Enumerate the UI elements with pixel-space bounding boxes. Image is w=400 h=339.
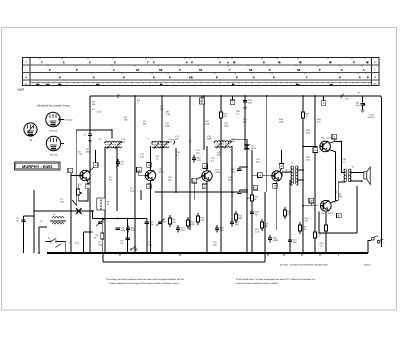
fuse FS1 on supply rail xyxy=(201,96,203,98)
capacitor C19 0.04 xyxy=(215,228,219,230)
terminal 22 xyxy=(273,184,278,189)
svg-text:0.005: 0.005 xyxy=(273,239,279,242)
svg-text:OC72: OC72 xyxy=(327,136,332,139)
svg-text:PAGE 1: PAGE 1 xyxy=(364,264,372,267)
svg-text:TS5: TS5 xyxy=(321,212,324,215)
AGC feed wire xyxy=(75,130,77,206)
terminal 16 xyxy=(147,184,152,189)
terminal 10 xyxy=(137,167,142,172)
svg-text:c: c xyxy=(55,137,56,139)
terminal 21 xyxy=(253,185,258,190)
svg-text:C: C xyxy=(25,61,27,64)
wave change switch S1 xyxy=(50,241,51,242)
svg-text:resistor has been marked the v: resistor has been marked the value is om… xyxy=(236,282,278,285)
decoupling capacitor C7 xyxy=(88,134,92,136)
terminal 8 xyxy=(332,134,337,139)
volume control VR1 xyxy=(251,195,254,201)
capacitor C35 0.005 xyxy=(268,238,272,240)
transistor TS1 OC44 xyxy=(80,170,90,180)
bias resistor R2b xyxy=(77,189,80,195)
svg-text:SUPPLY: SUPPLY xyxy=(368,116,376,119)
svg-text:b: b xyxy=(27,122,28,125)
terminal 25 xyxy=(313,148,318,153)
svg-text:OC45: OC45 xyxy=(215,171,220,174)
detector diode D1 OA70 xyxy=(246,142,248,154)
svg-text:b: b xyxy=(50,136,51,139)
trimmer capacitor C1 xyxy=(21,220,25,222)
svg-text:OC72: OC72 xyxy=(328,212,333,215)
terminal 13 xyxy=(147,163,152,168)
aerial circuit vertical xyxy=(24,190,35,253)
resistor R11 8.2k xyxy=(187,220,190,226)
loudspeaker LS xyxy=(364,172,367,179)
T1 base/collector/emitter leads xyxy=(71,150,96,253)
chassis ground rail xyxy=(47,252,368,254)
svg-text:2.2k: 2.2k xyxy=(78,153,82,156)
capacitor C11 0.01 xyxy=(126,228,130,230)
switch feed wire xyxy=(84,232,93,253)
capacitor C30 on rail xyxy=(244,96,246,100)
terminal 28 xyxy=(309,198,314,203)
coupling capacitor C40 xyxy=(250,212,254,214)
terminal 9 on rail xyxy=(321,101,326,106)
oscillator transformer L4 L5 xyxy=(105,141,114,142)
IF transformer IFT1 xyxy=(152,141,161,142)
resistor R14 10k xyxy=(220,112,223,118)
capacitor C41 50µ xyxy=(288,240,292,242)
svg-text:1k: 1k xyxy=(156,158,158,161)
transistor pinout TS1 xyxy=(24,123,37,136)
svg-text:C: C xyxy=(374,61,376,64)
transistor pinout TS5 TS6 xyxy=(46,136,60,150)
detector load caps xyxy=(239,167,247,192)
svg-text:c: c xyxy=(32,123,33,125)
svg-text:.005: .005 xyxy=(231,171,235,174)
ferrite rod aerial L1 xyxy=(50,217,66,224)
svg-text:OC45: OC45 xyxy=(159,171,164,174)
resistor R24 47 xyxy=(314,232,317,238)
svg-text:TS2 TS4: TS2 TS4 xyxy=(49,130,58,133)
svg-text:OA70: OA70 xyxy=(251,147,257,150)
X mark gang coupling xyxy=(76,208,82,214)
stage connection wires xyxy=(151,146,282,253)
capacitor C16 0.01 xyxy=(192,158,196,160)
svg-text:1 Q: 1 Q xyxy=(189,76,193,79)
resistor R12 2.7k xyxy=(197,216,200,222)
terminal 20 xyxy=(279,164,284,169)
transistor TS6 OC72 xyxy=(320,141,331,152)
svg-text:B493: B493 xyxy=(18,88,25,92)
svg-text:c: c xyxy=(55,113,56,115)
output stage wires xyxy=(303,139,346,206)
svg-text:4k: 4k xyxy=(117,96,119,99)
resistor R22 1k xyxy=(302,112,305,118)
transistor TS4 OC71 xyxy=(272,171,282,181)
resistor R18 10k xyxy=(261,222,264,228)
battery press studs xyxy=(371,237,374,240)
output transformer T2 xyxy=(347,169,349,182)
transistor pinout TS2 TS4 xyxy=(46,112,60,126)
svg-text:50m: 50m xyxy=(296,83,300,86)
resistor R20 3.3k xyxy=(284,210,287,216)
transistor TS5 OC72 xyxy=(320,200,331,211)
resistor R16 680 xyxy=(235,214,238,220)
tuning capacitor C2 xyxy=(98,222,102,224)
model name plate MURPHY - B493 xyxy=(15,162,61,170)
svg-text:C29: C29 xyxy=(231,191,234,194)
lower junctions xyxy=(89,252,91,254)
svg-text:b: b xyxy=(50,112,51,115)
terminal 19 xyxy=(258,173,263,178)
svg-text:The voltage and current readin: The voltage and current readings have be… xyxy=(106,278,185,281)
mixer bias network xyxy=(93,219,147,254)
svg-text:1k: 1k xyxy=(107,203,109,206)
terminal 18 xyxy=(202,184,207,189)
svg-text:C26: C26 xyxy=(231,168,234,171)
band switch S4 xyxy=(130,249,131,250)
secondary chassis line xyxy=(103,261,265,263)
tuning capacitor C8 xyxy=(158,222,162,224)
capacitor C21 25µ xyxy=(230,222,234,224)
ground stubs xyxy=(120,253,338,256)
svg-text:14m: 14m xyxy=(46,83,50,86)
transistor TS2 OC45 xyxy=(145,170,155,180)
svg-text:16m: 16m xyxy=(36,83,40,86)
svg-text:9 Volt: 9 Volt xyxy=(369,114,374,117)
switch wiring xyxy=(24,216,66,253)
HT supply top rail xyxy=(90,96,382,247)
feedback loop wires xyxy=(319,186,357,233)
capacitor C9 0.1 xyxy=(116,162,120,164)
svg-text:TS5 TS6: TS5 TS6 xyxy=(49,154,58,157)
driver transformer T1 xyxy=(294,166,296,184)
drive cord pointer xyxy=(72,200,76,206)
terminal 12 xyxy=(192,178,197,183)
svg-text:.01: .01 xyxy=(231,194,234,197)
dial calibration marks xyxy=(30,58,372,86)
svg-text:receiver switched to the M ran: receiver switched to the M range and the… xyxy=(109,282,180,285)
decoupling capacitor C47 xyxy=(362,96,364,103)
terminal 30 xyxy=(337,213,342,218)
svg-text:20,000 Ω/volt meter. The case: 20,000 Ω/volt meter. The case temperatur… xyxy=(236,278,316,281)
svg-text:KEYWAY - SHOWN IN ALTERNATIV: KEYWAY - SHOWN IN ALTERNATIVE WOUND SPOT xyxy=(280,264,329,267)
svg-text:OC71: OC71 xyxy=(285,171,290,174)
terminal 6 xyxy=(86,184,91,189)
svg-text:Red Spot: Red Spot xyxy=(65,118,73,121)
battery negative lead xyxy=(368,240,382,253)
svg-text:MURPHY - B493: MURPHY - B493 xyxy=(22,164,53,169)
TS5 emitter resistor xyxy=(325,225,328,231)
svg-text:TRANSISTOR CONNECTIONS: TRANSISTOR CONNECTIONS xyxy=(37,104,70,107)
AGC line xyxy=(155,191,247,193)
terminal 15 xyxy=(203,164,208,169)
transistor TS3 OC45 xyxy=(202,171,212,181)
vertical supply and stage wires xyxy=(90,96,315,253)
IF transformer IFT2 xyxy=(215,141,224,142)
terminal 1 xyxy=(68,168,73,173)
svg-text:TS6: TS6 xyxy=(321,136,324,139)
bias line xyxy=(34,211,93,219)
resistor R23 120 xyxy=(299,225,302,231)
top rail junctions xyxy=(134,95,136,97)
wire break mark xyxy=(341,94,345,99)
canned oscillator coil L5 xyxy=(97,198,105,210)
resistor R9 470 xyxy=(169,218,172,224)
svg-text:39k: 39k xyxy=(143,123,146,126)
tuning dial scale assembly xyxy=(23,58,380,86)
terminal 7 on rail xyxy=(230,100,235,105)
terminal 3 xyxy=(93,163,98,168)
svg-text:10m: 10m xyxy=(96,83,100,86)
capacitor C14 0.02 xyxy=(176,228,180,230)
